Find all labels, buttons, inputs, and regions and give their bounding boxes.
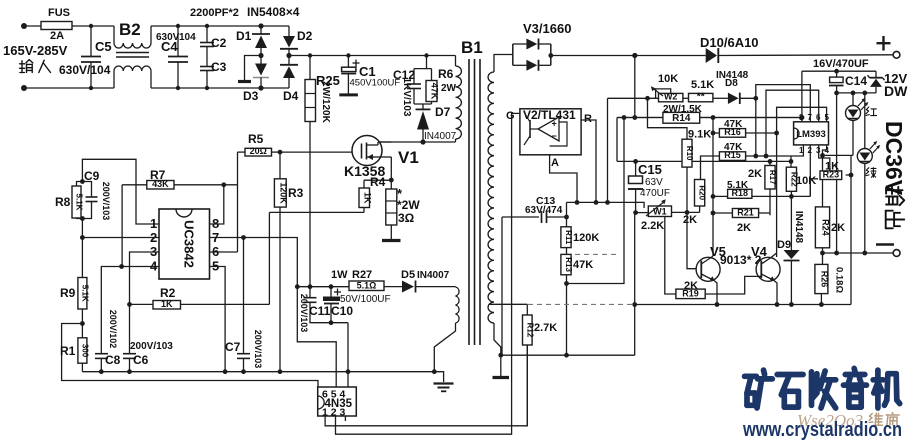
wire pin6 drop	[766, 90, 819, 156]
svg-text:R24: R24	[821, 219, 831, 236]
wire dashed link tap to emitter rail	[528, 303, 632, 305]
potentiometer W1 2.2K	[648, 206, 671, 217]
capacitor C1 450V100UF	[346, 53, 350, 57]
svg-text:120K: 120K	[278, 182, 288, 204]
transistor V1 K1358 MOSFET	[352, 136, 382, 166]
node pin5 ground	[223, 369, 228, 374]
resistor R13 47K	[566, 248, 568, 255]
svg-text:D1: D1	[236, 29, 252, 43]
wire V4 collector	[771, 253, 777, 258]
svg-text:1K: 1K	[161, 299, 173, 309]
wire 4N35 pin3 stub	[344, 416, 346, 421]
svg-text:1: 1	[799, 146, 804, 155]
node R25 joins VCC rail	[308, 284, 313, 289]
svg-text:5.1K: 5.1K	[691, 79, 714, 91]
wire 0V drop	[634, 213, 636, 356]
svg-text:5.1Ω: 5.1Ω	[357, 280, 377, 290]
node source junction	[389, 178, 394, 183]
svg-text:470UF: 470UF	[640, 188, 670, 199]
capacitor C12 1KV/103	[424, 53, 428, 57]
wire C14 bottom row	[837, 92, 876, 94]
wire red line down to emitter rail	[850, 155, 852, 304]
svg-text:R: R	[584, 113, 592, 125]
node R8C9 top	[80, 179, 85, 184]
svg-text:D7: D7	[435, 105, 451, 119]
label plus sign	[877, 42, 891, 44]
svg-text:630V/104: 630V/104	[59, 63, 111, 77]
wire W1 right to R20	[672, 211, 700, 213]
svg-text:R6: R6	[438, 67, 454, 81]
wire top rail down to R14 row	[634, 56, 636, 118]
node C13 R11 junction	[564, 215, 569, 220]
diode D3	[260, 56, 262, 64]
svg-text:1W: 1W	[331, 269, 348, 281]
svg-text:D4: D4	[283, 89, 299, 103]
svg-text:200V/103: 200V/103	[130, 341, 173, 352]
svg-text:R23: R23	[823, 169, 840, 179]
wire 4N35 pin2 to TL431 G	[336, 113, 520, 434]
resistor R20 2K	[695, 180, 705, 207]
watermark crystalradio logo	[745, 373, 757, 379]
transistor V4 9013	[756, 257, 780, 281]
wire V5 collector	[711, 256, 713, 258]
node AC input top terminal	[21, 23, 27, 29]
wire R15 left to R20	[701, 156, 720, 180]
svg-text:C5: C5	[95, 39, 112, 54]
svg-text:V3/1660: V3/1660	[523, 21, 571, 36]
wire TL431 anode	[549, 155, 551, 163]
svg-text:R3: R3	[288, 186, 304, 200]
wire C13 left to 0V	[501, 217, 503, 355]
svg-text:R8: R8	[55, 195, 71, 209]
ground symbol primary	[442, 372, 443, 382]
node pin4 line crosses ground bus	[346, 369, 351, 374]
svg-text:C4: C4	[161, 39, 178, 54]
wire 4N35 pin1 to R12	[325, 345, 527, 426]
svg-text:R15: R15	[724, 150, 741, 160]
svg-text:20Ω: 20Ω	[250, 146, 267, 156]
capacitor C7 200V/103	[241, 235, 246, 240]
wire R3 bottom to ground bus	[279, 207, 281, 372]
node pin4 junction	[119, 264, 124, 269]
LED green indicator	[864, 93, 866, 149]
svg-text:2W/120K: 2W/120K	[320, 81, 331, 123]
wire R23 right to red line	[846, 174, 851, 176]
svg-text:R16: R16	[724, 127, 741, 137]
svg-text:R20: R20	[698, 185, 707, 200]
svg-text:B2: B2	[119, 20, 141, 39]
node rail161 crossing	[776, 160, 778, 162]
svg-text:V1: V1	[398, 148, 419, 167]
node V3 output	[548, 53, 553, 58]
svg-text:43K: 43K	[152, 179, 169, 189]
LED red indicator	[852, 93, 854, 106]
wire pin7 row to VCC rail	[210, 238, 298, 287]
svg-text:R19: R19	[682, 288, 699, 298]
wire drain row	[374, 141, 456, 143]
svg-text:C2: C2	[211, 36, 227, 50]
svg-text:D9: D9	[777, 239, 791, 251]
zener diode DW 12V	[875, 71, 877, 78]
wire pin2 down to R18 row	[809, 145, 811, 197]
svg-text:C15: C15	[638, 162, 662, 177]
wire R2 right to source row	[268, 212, 270, 304]
svg-text:1KV/103: 1KV/103	[401, 78, 412, 117]
svg-text:R27: R27	[352, 269, 372, 281]
svg-text:300: 300	[80, 344, 89, 358]
svg-text:R12: R12	[525, 323, 534, 338]
svg-text:5.1K: 5.1K	[75, 194, 84, 211]
wire R8C9 bottom to R9	[81, 219, 83, 278]
wire pin3 to R23	[819, 145, 830, 171]
svg-text:C11: C11	[309, 304, 331, 318]
node R16 right	[774, 131, 779, 136]
wire TL431 R to sense line	[581, 120, 596, 202]
wire long vertical to R13 row	[567, 118, 625, 284]
resistor R25 2W/120K	[309, 56, 311, 80]
svg-text:UC3842: UC3842	[181, 220, 196, 268]
wire R5 left to pin6	[237, 152, 239, 252]
svg-text:IN4007: IN4007	[417, 270, 450, 281]
svg-text:A: A	[551, 157, 559, 169]
svg-text:47K: 47K	[573, 259, 593, 271]
node W2 branch on sense line	[605, 200, 610, 205]
wire bridge bottom	[261, 87, 289, 89]
svg-text:R5: R5	[248, 132, 264, 146]
svg-text:IN5408×4: IN5408×4	[247, 5, 300, 19]
diode D7 IN4007	[422, 104, 424, 109]
capacitor C4	[177, 26, 179, 56]
node R14 row to LM393 pin8	[800, 115, 805, 120]
node VCC rail left	[295, 284, 300, 289]
resistor R12 2.7K	[526, 304, 528, 315]
wire V5 collector line	[712, 118, 714, 257]
node feedback winding ground	[432, 369, 437, 374]
fuse FUS 2A	[41, 22, 72, 30]
capacitor C15 63V 470UF	[635, 161, 637, 176]
svg-text:R10: R10	[685, 146, 694, 161]
wire AC top rail	[24, 25, 114, 27]
svg-text:R11: R11	[564, 230, 573, 245]
wire R7 left vertical to pin4	[121, 185, 123, 267]
capacitor C2	[206, 26, 208, 43]
wire secondary top to V3	[494, 55, 513, 73]
ground bar below 3 ohm resistor	[382, 239, 401, 242]
wire DC+ rail to transformer	[289, 55, 456, 57]
capacitor C8 200V/102	[95, 353, 108, 355]
op-amp U2 V2/TL431 voltage reference	[520, 109, 581, 155]
wire pin1 row	[746, 155, 791, 157]
wire pin6 stub	[210, 251, 238, 253]
transformer B1 primary winding	[455, 56, 457, 67]
wire source down	[390, 157, 392, 180]
svg-text:C7: C7	[225, 340, 241, 354]
node R joins sense line	[594, 200, 599, 205]
wire emitter rail	[635, 304, 851, 306]
svg-text:200V/103: 200V/103	[253, 330, 263, 369]
transformer B1 core	[468, 59, 470, 345]
svg-text:C10: C10	[331, 304, 353, 318]
wire current sense row	[269, 211, 364, 213]
node drain junction	[420, 139, 425, 144]
wire secondary bottom to ground	[494, 323, 501, 355]
node R8C9 bottom	[80, 216, 85, 221]
svg-text:3Ω: 3Ω	[398, 211, 415, 225]
svg-text:5.1K: 5.1K	[80, 285, 89, 302]
wire sense line to W1 wiper	[640, 202, 644, 208]
wire pin4 column link to red line	[823, 154, 854, 156]
wire C14 top line	[802, 70, 876, 72]
wire R19 left to W1 bottom	[665, 217, 676, 295]
svg-text:C8: C8	[105, 353, 121, 367]
svg-text:0.18Ω: 0.18Ω	[834, 267, 845, 293]
svg-text:R1: R1	[60, 344, 76, 358]
wire R25 bottom to VCC rail	[309, 122, 311, 287]
wire minus output	[823, 252, 894, 254]
svg-text:6: 6	[816, 113, 821, 122]
diode D4	[288, 56, 290, 65]
wire R18 row right	[752, 195, 810, 197]
svg-text:200V/103: 200V/103	[299, 294, 309, 333]
svg-text:2K: 2K	[831, 222, 845, 234]
node plus output terminal	[893, 51, 900, 58]
node D8 output	[753, 96, 758, 101]
svg-text:D3: D3	[243, 89, 259, 103]
svg-text:10K: 10K	[796, 175, 816, 187]
svg-text:−: −	[552, 131, 557, 141]
svg-text:www.crystalradio.cn: www.crystalradio.cn	[742, 419, 902, 441]
svg-text:2.7K: 2.7K	[534, 322, 557, 334]
svg-text:V4: V4	[751, 244, 768, 259]
op-amp U4 LM393 comparator	[794, 122, 829, 145]
svg-text:2K: 2K	[683, 214, 697, 226]
resistor R22 10K	[786, 167, 796, 191]
wire dashed link R13	[575, 253, 620, 255]
wire bridge top to D2 column	[261, 25, 289, 27]
node R24 bottom minus wire	[820, 251, 825, 256]
svg-text:1K: 1K	[362, 192, 372, 204]
svg-text:165V-285V: 165V-285V	[3, 43, 68, 58]
svg-text:DC36V: DC36V	[881, 121, 907, 196]
wire 0V line	[501, 354, 635, 356]
svg-text:IN4007: IN4007	[424, 131, 457, 142]
capacitor C14 16V/470UF	[834, 69, 839, 74]
svg-text:2K: 2K	[748, 168, 762, 180]
svg-text:D5: D5	[401, 269, 415, 281]
resistor R1 300 ohm	[78, 338, 87, 363]
transformer B1 feedback winding	[456, 287, 460, 323]
capacitor C9 200V/103	[82, 182, 91, 198]
svg-text:W1: W1	[653, 206, 667, 216]
wire R10 bottom to V5 base	[687, 167, 701, 269]
wire VCC rail	[297, 286, 349, 288]
resistor 3 ohm 2W current sense	[390, 180, 392, 189]
svg-text:104: 104	[179, 32, 196, 43]
wire pin1 jog	[791, 145, 803, 156]
wire W2 row	[608, 97, 659, 99]
capacitor C11 200V/103	[309, 287, 311, 298]
capacitor C5	[90, 26, 92, 56]
svg-text:1: 1	[150, 216, 157, 231]
wire DC36V top rail	[551, 55, 706, 57]
op-amp U3 4N35 optocoupler	[318, 387, 357, 416]
node W1 R20 junction	[685, 210, 690, 215]
wire pin5 to ground bus	[210, 267, 226, 372]
wire D8 node to LM393 pin7	[756, 85, 811, 122]
node AC input bottom terminal	[21, 85, 27, 91]
wire AC bottom rail	[24, 87, 114, 89]
svg-text:R13: R13	[564, 257, 573, 272]
svg-text:+: +	[552, 119, 557, 129]
svg-text:FUS: FUS	[48, 7, 70, 19]
wire pin5 drop to V4 collector	[777, 107, 827, 257]
svg-text:200V/102: 200V/102	[108, 310, 118, 349]
op-amp U1 UC3842 PWM controller	[159, 209, 210, 279]
svg-text:LM393: LM393	[796, 129, 826, 140]
wire AC mid stub with bar	[245, 56, 262, 81]
transformer B1 secondary winding	[488, 72, 494, 323]
wire R19 right to V4 base	[705, 276, 761, 294]
resistor R6 47K 2W	[431, 69, 433, 81]
wire D8 node down to pin1 row	[755, 98, 757, 156]
resistor R24 2K	[822, 180, 824, 207]
wire primary ground bus	[82, 371, 442, 373]
resistor R3 120K	[279, 152, 281, 179]
svg-text:D10/6A10: D10/6A10	[700, 35, 759, 50]
svg-text:63V/474: 63V/474	[525, 205, 563, 216]
node bridge bottom junction	[258, 85, 263, 90]
node bridge left mid junction	[258, 53, 263, 58]
diode D1	[260, 26, 262, 34]
wire voltage sense line	[567, 201, 641, 203]
wire aux VCC rail 161	[617, 160, 791, 162]
node gate node	[278, 150, 283, 155]
node R13 bottom	[564, 281, 569, 286]
svg-text:**: **	[697, 92, 705, 103]
svg-text:2A: 2A	[50, 30, 64, 42]
wire pin4 row to C8	[101, 267, 159, 354]
ground bar secondary	[500, 355, 502, 376]
svg-text:DW: DW	[884, 83, 908, 99]
wire pin4 to R24	[823, 145, 827, 171]
svg-text:R4: R4	[370, 175, 386, 189]
node aux rail to R22 pin1	[789, 159, 794, 164]
wire pin8 to R7 row	[210, 185, 224, 224]
wire R13 bottom to 0V line	[566, 284, 568, 356]
svg-text:7: 7	[808, 113, 813, 122]
wire pin3 to R2 and C6	[130, 252, 160, 354]
wire pin7 vert to 4N35 pin5	[297, 287, 336, 387]
wire R14 row	[617, 117, 802, 119]
resistor R4 1K	[364, 179, 391, 181]
svg-text:V2/TL431: V2/TL431	[523, 108, 576, 122]
svg-text:16V/470UF: 16V/470UF	[813, 58, 869, 70]
wire W1 left	[636, 212, 649, 214]
node bridge right mid junction	[286, 53, 291, 58]
resistor R8 5.1K	[77, 182, 83, 187]
node bridge top junction	[258, 23, 263, 28]
node R9 R1 junction	[80, 321, 85, 326]
wire R8C9 top loop to pin1	[82, 159, 159, 224]
wire V4 emitter down	[774, 281, 777, 305]
svg-text:D8: D8	[725, 78, 738, 89]
node R7 pin8 junction	[221, 182, 226, 187]
svg-text:2200PF*2: 2200PF*2	[190, 7, 239, 19]
wire R14 row left drop to aux rail	[616, 118, 618, 162]
svg-text:IN4148: IN4148	[793, 211, 804, 244]
svg-text:R17: R17	[768, 170, 777, 185]
node R22 bottom R18 row	[789, 194, 794, 199]
node R3 ground	[278, 369, 283, 374]
svg-text:200V/103: 200V/103	[101, 182, 111, 221]
resistor R26 0.18 ohm	[822, 253, 824, 264]
svg-text:C3: C3	[211, 60, 227, 74]
wire secondary tap row	[490, 303, 528, 305]
svg-text:G: G	[506, 110, 515, 122]
wire gate row	[280, 151, 352, 153]
svg-text:R21: R21	[737, 207, 754, 217]
wire C14 bottom to minus output	[836, 93, 838, 253]
resistor R11 120K	[566, 217, 568, 227]
resistor R21 2K	[732, 209, 758, 218]
capacitor C3	[200, 66, 214, 68]
node secondary common	[498, 353, 503, 358]
svg-text:2: 2	[150, 230, 157, 245]
node minus output terminal	[893, 250, 900, 257]
label minus sign	[876, 243, 894, 246]
wire V5 emitter down	[714, 281, 717, 305]
wire red LED down to junction	[852, 121, 854, 156]
svg-text:R14: R14	[672, 113, 691, 124]
svg-text:R9: R9	[60, 286, 76, 300]
svg-text:B1: B1	[461, 38, 483, 57]
svg-text:C6: C6	[133, 353, 149, 367]
svg-text:R18: R18	[731, 188, 748, 198]
wire R18 row to R23 left	[810, 179, 818, 197]
transistor V5 9013	[696, 257, 720, 281]
wire top rail to plus terminal	[718, 54, 893, 57]
svg-text:2K: 2K	[737, 222, 751, 234]
svg-text:C9: C9	[84, 169, 100, 183]
wire pin8 to C14 top line	[801, 71, 803, 122]
svg-text:D2: D2	[297, 29, 313, 43]
wire to 4N35 pin6 frame	[62, 324, 318, 388]
node C10 C11 bottom junction	[329, 320, 334, 325]
svg-text:120K: 120K	[573, 232, 599, 244]
node top rail branch	[632, 53, 637, 58]
svg-text:5: 5	[825, 113, 830, 122]
svg-text:50V/100UF: 50V/100UF	[340, 294, 391, 305]
wire C10C11 bottom to 4N35 pin4	[347, 323, 349, 387]
svg-text:*2W: *2W	[397, 198, 420, 212]
node pin2 row left	[80, 235, 85, 240]
diode D2	[283, 36, 295, 48]
wire pin2 row	[82, 237, 159, 239]
node C15 bottom 0V	[633, 210, 638, 215]
svg-text:R26: R26	[819, 271, 829, 288]
capacitor C6 200V/103	[123, 353, 136, 355]
wire R22 pin1 vertical	[790, 161, 792, 167]
svg-text:63V: 63V	[645, 177, 663, 188]
svg-text:47K: 47K	[430, 83, 440, 100]
wire W2 row left drop to sense line	[607, 98, 609, 202]
capacitor C10 50V/100UF	[329, 284, 334, 289]
wire green LED down to minus wire	[864, 164, 866, 254]
svg-text:10K: 10K	[658, 73, 678, 85]
svg-text:C14: C14	[845, 74, 867, 88]
svg-text:2W: 2W	[441, 83, 457, 94]
resistor R9 5.1K	[78, 278, 87, 310]
